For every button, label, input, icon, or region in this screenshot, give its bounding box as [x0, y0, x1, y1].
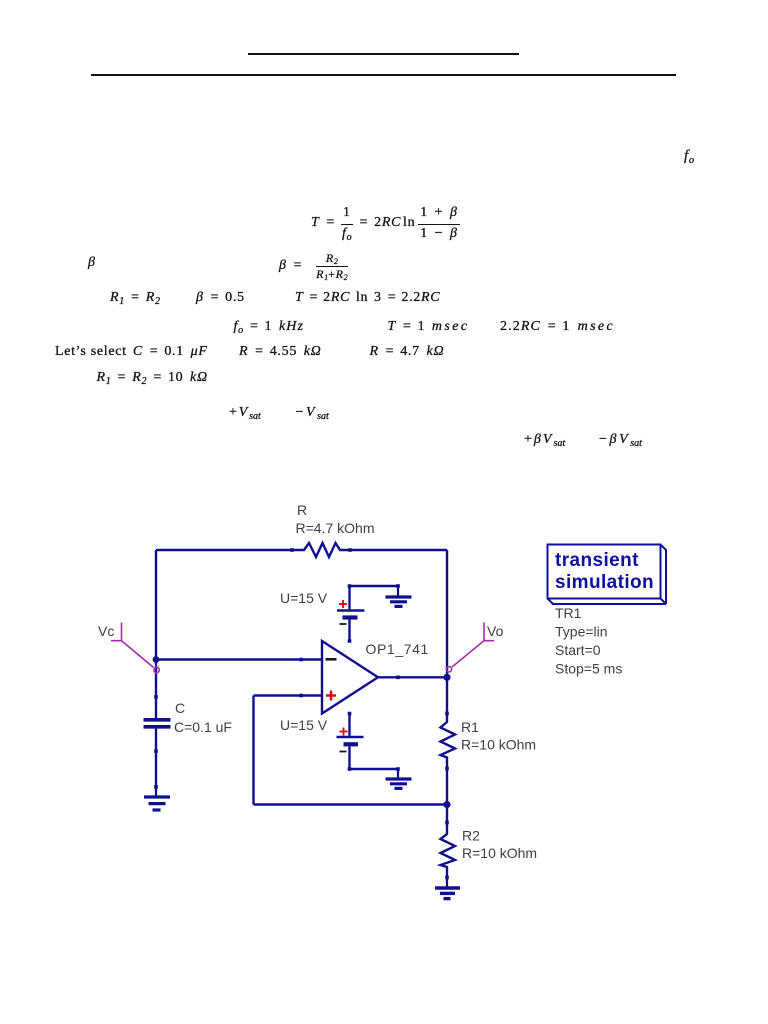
svg-text:C: C [175, 700, 185, 716]
ground (top supply) [386, 586, 412, 606]
wire: left vertical rail (top node to capacitor) [155, 550, 157, 697]
label R value [296, 502, 375, 536]
ground (bottom supply) [386, 769, 412, 788]
wire: non-inverting input [254, 694, 323, 698]
label U=15 V (top) [280, 590, 328, 606]
beta = R2/(R1+R2) [279, 248, 348, 283]
wire: battery bottom to ground [350, 767, 400, 771]
row8 [524, 432, 565, 448]
wire: capacitor to ground [154, 751, 158, 789]
svg-text:TR1: TR1 [555, 605, 582, 621]
battery U=15 V (bottom supply) [337, 714, 364, 771]
svg-text:R: R [297, 502, 307, 518]
svg-text:Stop=5 ms: Stop=5 ms [555, 661, 622, 677]
svg-text:Start=0: Start=0 [555, 642, 601, 658]
row6 [97, 370, 208, 386]
svg-text:Vo: Vo [487, 623, 504, 639]
svg-text:R2: R2 [462, 828, 480, 844]
svg-text:R=10 kOhm: R=10 kOhm [461, 737, 536, 753]
label OP1_741 [366, 641, 429, 657]
svg-text:simulation: simulation [555, 572, 654, 593]
row5 [55, 344, 208, 360]
wire: output of op-amp to right rail [378, 676, 447, 680]
transient simulation box [548, 545, 667, 605]
svg-text:Vc: Vc [98, 623, 114, 639]
op-amp U1 OP1_741 [322, 639, 378, 715]
top long rule [91, 74, 676, 76]
wire: battery top to ground [350, 584, 400, 588]
wire: inverting input [156, 658, 322, 662]
resistor R [290, 543, 352, 557]
label R2 value [462, 828, 537, 862]
wire: top horizontal left segment (node Vc top to R) [156, 549, 292, 551]
label C value [174, 700, 232, 735]
wire: top horizontal right segment (R to right rail) [350, 549, 447, 551]
row3 [110, 290, 160, 306]
label U=15 V (bottom) [280, 717, 328, 733]
svg-text:transient: transient [555, 550, 639, 571]
svg-text:R=10 kOhm: R=10 kOhm [462, 845, 537, 861]
f_o top right [684, 148, 694, 165]
row7 [229, 405, 261, 421]
resistor R1 [441, 712, 456, 771]
node label Vc [98, 623, 159, 673]
svg-text:OP1_741: OP1_741 [366, 641, 429, 657]
node junction divider midpoint [443, 801, 450, 808]
node junction at Vc [153, 656, 160, 663]
wire: output node down to R1 [446, 677, 448, 713]
wire: feedback left vertical (non-inv divider) [252, 696, 254, 805]
wire: right vertical rail (to output node) [446, 550, 448, 677]
row4 [234, 319, 305, 335]
svg-text:R=4.7 kOhm: R=4.7 kOhm [296, 520, 375, 536]
resistor R2 [441, 821, 456, 880]
svg-text:Type=lin: Type=lin [555, 624, 608, 640]
top short rule [248, 53, 519, 55]
capacitor C [144, 695, 171, 753]
label TR1 parameters [555, 605, 622, 677]
svg-text:R1: R1 [461, 719, 479, 735]
label R1 value [461, 719, 536, 753]
node junction Vo (output) [443, 674, 450, 681]
ground (R2) [435, 878, 460, 899]
main formula T = 1/fo = 2RC ln (1+b)/(1-b) [311, 203, 460, 243]
svg-text:U=15 V: U=15 V [280, 590, 328, 606]
beta alone [88, 255, 96, 271]
wire: bottom horizontal to divider midpoint [254, 803, 448, 805]
ground (capacitor) [144, 787, 170, 810]
node label Vo [446, 623, 503, 673]
svg-text:U=15 V: U=15 V [280, 717, 328, 733]
svg-text:C=0.1 uF: C=0.1 uF [174, 719, 232, 735]
wire: divider midpoint down to R2 [446, 805, 448, 823]
battery U=15 V (top supply) [337, 584, 365, 641]
wire: R1 to divider midpoint [446, 769, 448, 805]
